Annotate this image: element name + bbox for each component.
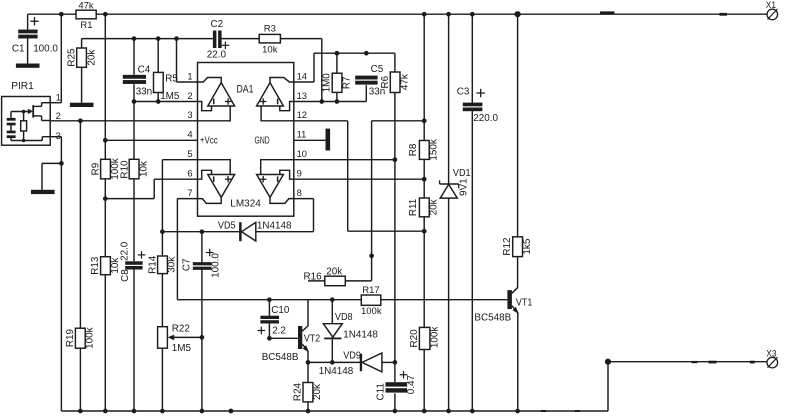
node: junction on R16 column [369,253,374,258]
svg-text:C4: C4 [138,64,151,75]
svg-text:R13: R13 [90,256,101,275]
resistor R7 1M0 [322,53,353,101]
node: bottom rail junction R20 [422,409,427,414]
resistor R8 150k [408,139,439,160]
wire: R8 column from rail [423,14,425,140]
capacitor C3 220.0 [457,87,499,411]
resistor R17 100k [361,285,382,317]
svg-text:20k: 20k [326,267,342,278]
svg-text:C5: C5 [371,64,384,75]
svg-text:C2: C2 [211,19,224,30]
svg-text:47k: 47k [78,1,94,12]
resistor R25 20k [66,39,97,103]
svg-text:20k: 20k [428,199,439,215]
node: bottom rail junction C7 [200,409,205,414]
svg-text:C1: C1 [12,43,25,54]
diode VD5 1N4148 [218,221,314,242]
PIR1 sensor box [2,81,51,145]
node: VD8 top junction [330,297,335,302]
artifact dash on rail [600,11,615,13]
wire: R9 bottom to pin6 jog [105,179,197,257]
wire: C10 bottom to VT2 base [269,337,297,339]
svg-text:R19: R19 [65,329,76,348]
wire: pin4 Vcc wire [105,139,197,141]
node: bottom rail junction R24 [306,409,311,414]
artifact dash near X1 [720,13,728,16]
wire: pin1 wire from node A to DA1 [177,39,198,82]
wire: C3 column from rail [471,14,473,103]
wire: pin7 wire and drop [177,199,197,300]
svg-text:1M0: 1M0 [322,73,333,93]
op-amp unit 2 triangle [257,78,294,107]
svg-text:1k5: 1k5 [522,238,533,254]
svg-text:BC548B: BC548B [262,352,299,363]
svg-text:3: 3 [56,130,61,141]
ground bar under C1 [16,64,40,68]
svg-text:R7: R7 [341,76,352,89]
node: rail junction right of R1 [103,12,108,17]
node: C7 top junction [200,229,205,234]
wire: node A horizontal line to C2 [82,38,213,40]
node: junction on R8 column at VD5 row [422,229,427,234]
PIR1 internal bottom wire [11,137,50,143]
svg-text:1: 1 [56,92,61,103]
node: C11 top junction [393,360,398,365]
svg-text:1: 1 [187,70,192,81]
svg-text:LM324: LM324 [230,198,261,209]
svg-text:VT2: VT2 [304,334,321,345]
svg-text:4: 4 [187,129,192,140]
svg-text:R12: R12 [502,238,513,256]
node: R19 top junction [78,118,83,123]
svg-text:9V1: 9V1 [458,178,469,196]
zener diode VD1 9V1 [440,168,471,411]
PIR1 internal resistor [21,112,27,141]
resistor R24 20k [293,363,324,411]
svg-text:2: 2 [187,90,192,101]
resistor R3 10k [259,24,280,56]
node: X3 corner junction [605,359,611,365]
svg-text:13: 13 [297,90,307,101]
svg-text:C3: C3 [457,87,470,98]
node: R5 top junction [156,36,161,41]
svg-text:C8: C8 [120,269,131,282]
svg-text:DA1: DA1 [237,83,254,95]
resistor R1 47k [76,1,96,32]
svg-text:R17: R17 [362,285,379,296]
op-amp IC DA1 LM324 body [198,63,294,217]
resistor R14 30k [147,255,177,326]
svg-text:+Vcc: +Vcc [200,136,218,147]
node: C4 top junction [132,36,137,41]
node: stray dot on bottom rail [229,409,234,414]
node: rail junction VD1 column [446,12,451,17]
node: R7 top junction [335,51,340,56]
svg-text:VT1: VT1 [516,297,533,308]
resistor R11 20k [408,198,439,217]
svg-text:47k: 47k [399,74,410,90]
diode VD9 1N4148 [319,351,395,377]
svg-text:100k: 100k [361,306,382,317]
capacitor C1 100.0 [12,14,59,64]
op-amp unit 3 input jogs [198,160,231,180]
svg-text:20k: 20k [312,384,323,400]
wire: PIR pin2 row to DA1 pin3 [50,120,197,122]
capacitor C10 2.2 [258,300,290,339]
wire: R11 down through VD5 row to R20 [423,217,425,411]
transistor VT1 BC548B [474,257,532,411]
wire: pin14 wire up and over to R7/C5/R6 [294,53,395,82]
svg-text:BC548B: BC548B [474,312,511,323]
wire: C2 to R3 [222,38,260,40]
svg-text:100k: 100k [85,327,96,348]
svg-text:2.2: 2.2 [272,325,286,336]
svg-text:6: 6 [187,168,192,179]
wire: top rail from C1 corner to X1 [28,13,767,15]
svg-text:20k: 20k [86,50,97,66]
op-amp unit 4 output jog [270,197,294,203]
svg-text:220.0: 220.0 [473,113,498,124]
capacitor C5 33n [355,64,385,97]
wire: pin9 wire to R8/R11 junction [294,178,424,180]
wire: R3 to pin13 drop [280,39,321,102]
node: R22 wiper junction on C7 column [200,335,205,340]
node: bottom rail junction C3 [470,409,475,414]
wire: pin11 wire to GND bar [294,139,326,141]
resistor R6 47k [380,72,410,160]
svg-text:100k: 100k [430,327,441,348]
node: rail junction R8 column [422,12,427,17]
node: bottom rail junction VD1 [446,409,451,414]
node: rail junction to PIR pin1 column [59,12,64,17]
node: C5 top junction [364,51,369,56]
potentiometer R22 1M5 [158,323,202,411]
wire: bottom ground rail [61,410,608,412]
ground bar near PIR [31,190,55,194]
wire: pin13 row [294,85,367,101]
node: bottom rail junction R13 [103,409,108,414]
svg-text:R14: R14 [147,255,158,274]
artifact dashes on bottom rail [541,410,580,412]
node: pin10 junction [393,157,398,162]
op-amp unit 2 input jogs [261,102,294,121]
wire: pin5 wire and column to R14 [162,160,197,256]
wire: bottom rail riser to X3 line [608,362,767,411]
wire: pin2 row C4/R5 bottoms to DA1 [134,101,198,103]
node: R7 bottom junction [335,99,340,104]
svg-text:9: 9 [297,168,302,179]
resistor R12 1k5 [502,237,533,257]
wire: link row to R8 column [372,121,426,281]
svg-text:VD8: VD8 [335,312,353,323]
svg-text:1N4148: 1N4148 [343,329,378,340]
PIR1 pyro elements [7,112,16,141]
svg-text:VD5: VD5 [218,221,236,232]
svg-text:10k: 10k [138,161,149,177]
pin numbers DA1 left 1-7 [187,70,192,198]
svg-text:0.47: 0.47 [406,375,417,394]
svg-text:X1: X1 [766,0,776,10]
svg-text:R8: R8 [408,143,419,156]
svg-text:100.0: 100.0 [33,43,58,54]
node: pin4 junction on R9 column [103,138,108,143]
wire: VD5 row left [162,231,239,233]
wire: ground branch [42,163,61,189]
svg-text:R10: R10 [120,160,131,179]
svg-text:X3: X3 [766,348,776,358]
svg-text:C7: C7 [181,258,192,271]
resistor R16 20k [304,267,372,286]
wire: output row from pin7 to VT1 base [177,299,507,301]
svg-text:R24: R24 [293,382,304,401]
resistor R20 100k [409,327,441,350]
svg-text:11: 11 [297,129,307,140]
capacitor C11 0.47 [376,362,417,411]
node: VT2 emitter junction [306,360,311,365]
node: bottom rail junction C11 [393,409,398,414]
op-amp unit 1 input jogs [198,102,231,121]
node: R14 top junction [160,229,165,234]
svg-text:VD9: VD9 [343,351,361,362]
node: PIR pin3 ground branch junction [59,161,64,166]
svg-text:1N4148: 1N4148 [319,366,354,377]
op-amp unit 3 output jog [198,197,222,203]
svg-text:1M5: 1M5 [160,91,180,102]
svg-text:33n: 33n [136,86,152,97]
node: bottom rail junction R19 [78,409,83,414]
svg-text:2: 2 [56,110,61,121]
resistor R10 10k [120,102,150,262]
svg-text:5: 5 [187,148,192,159]
svg-text:100.0: 100.0 [211,253,222,278]
svg-text:R11: R11 [408,198,419,216]
resistor R9 100k [90,158,121,179]
ground bar at pin11 [326,129,331,151]
PIR1 internal gate wire [11,109,32,113]
wire: VD1 column from rail [448,14,450,184]
artifact dash on X3 line [692,361,755,364]
PIR1 internal FET [33,103,50,121]
svg-text:10k: 10k [262,44,278,55]
wire: R8 to R11 [423,159,425,198]
wire: R12 column from rail [517,14,519,237]
wire: R1 output column down to R9/R13 [104,14,106,159]
node: C10 bottom junction [267,336,272,341]
wire: pin8 wire down to VD5 [294,199,314,232]
svg-text:R6: R6 [380,75,391,88]
node: bottom rail junction VT1 emitter [515,409,520,414]
transistor VT2 BC548B [262,300,321,364]
svg-text:14: 14 [297,70,307,81]
svg-text:150k: 150k [428,139,439,160]
terminal X3 [766,348,777,368]
svg-text:GND: GND [255,136,270,147]
wire: PIR pin1 stub up to rail [50,14,61,103]
svg-text:R20: R20 [409,329,420,348]
capacitor C7 100.0 [181,232,221,411]
node: R5 bottom junction [156,99,161,104]
resistor R19 100k [65,121,96,411]
svg-text:10: 10 [297,148,307,159]
pin labels PIR1 [56,92,61,142]
op-amp unit 4 input jogs [261,160,294,180]
node: rail junction R12 column [515,11,521,17]
resistor R13 10k [90,256,121,411]
capacitor C2 22.0 [207,19,229,60]
capacitor C4 33n [123,39,152,102]
svg-text:R1: R1 [80,20,92,31]
diode VD8 1N4148 [323,300,378,363]
svg-text:R3: R3 [264,24,276,35]
node: pin1 feedback junction [174,36,179,41]
terminal X1 [766,0,778,20]
capacitor C8 22.0 [119,241,145,411]
node: C10 top junction [267,297,272,302]
svg-text:PIR1: PIR1 [11,81,34,92]
svg-text:VD1: VD1 [453,168,471,179]
svg-text:7: 7 [187,187,192,198]
node: rail junction C3 column [470,12,475,17]
svg-text:C10: C10 [271,305,290,316]
svg-text:1N4148: 1N4148 [257,221,292,232]
node: link row junction on R8 column [422,118,427,123]
ground bar under R25 [70,103,94,107]
resistor R5 1M5 [154,39,180,103]
svg-text:R22: R22 [172,323,190,334]
svg-text:8: 8 [297,187,302,198]
svg-text:R9: R9 [90,162,101,175]
op-amp unit 3 triangle [208,175,235,198]
wire: VD9 row from VT2 emitter [308,361,360,363]
svg-text:3: 3 [187,109,192,120]
wire: PIR pin3 column down to bottom rail [50,137,61,411]
node: pin13-R3 junction [319,99,324,104]
svg-text:22.0: 22.0 [207,49,227,60]
node: bottom rail junction R22 [160,409,165,414]
wire: pin12 wire and drop to VD5 row [294,121,424,231]
pin numbers DA1 right 14-8 [297,70,307,198]
svg-text:1M5: 1M5 [172,343,192,354]
svg-text:22.0: 22.0 [119,241,130,261]
node: bottom rail junction C8 [132,409,137,414]
node: pin9 junction [422,177,427,182]
node: VD8 bottom junction [330,360,335,365]
svg-text:R25: R25 [66,48,77,67]
svg-text:C11: C11 [376,383,387,401]
node: R9 bottom junction [103,196,108,201]
op-amp unit 4 triangle [257,175,284,198]
node: C4 bottom junction [132,99,137,104]
svg-text:R16: R16 [304,271,323,282]
svg-text:12: 12 [297,109,307,120]
wire: R6 column long drop to VD9 row [394,160,396,363]
wire: pin10 wire to R6 column [294,159,395,161]
op-amp unit 1 triangle [198,78,235,107]
svg-text:30k: 30k [167,257,178,273]
